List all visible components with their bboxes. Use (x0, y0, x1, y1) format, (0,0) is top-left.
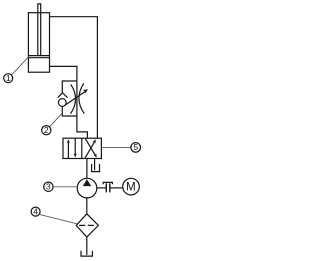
wire pump to filter (86, 198, 88, 214)
filter 4 diamond (76, 214, 98, 237)
pump 3 circle (77, 178, 97, 198)
left position down arrow (74, 138, 76, 155)
pointer line 1 (12, 56, 30, 75)
svg-text:4: 4 (33, 206, 38, 216)
svg-text:3: 3 (46, 182, 51, 192)
cylinder 1 body (28, 13, 49, 72)
directional valve 5 body (63, 138, 101, 158)
shaft pump to coupling (97, 187, 107, 189)
throttle adjust arrow (65, 91, 86, 105)
wire filter to tank (86, 237, 88, 255)
pointer line 3 (53, 186, 77, 188)
valve position divider (81, 138, 83, 158)
pointer line 4 (40, 215, 77, 224)
throttle valve 2 body top edge (62, 81, 77, 93)
motor M circle (123, 178, 140, 195)
tank at valve T (92, 164, 100, 172)
right position cross arrow P-B (85, 141, 95, 158)
label circle 5 (131, 143, 141, 153)
pointer line 2 (50, 113, 63, 126)
wire cylinder top port to valve B (50, 17, 98, 138)
throttle arc right (79, 83, 84, 113)
svg-text:M: M (126, 182, 136, 194)
wire valve T to tank (94, 159, 96, 171)
svg-text:5: 5 (133, 142, 138, 152)
svg-text:2: 2 (44, 125, 49, 135)
throttle arc left (71, 84, 76, 113)
svg-text:1: 1 (6, 73, 11, 83)
label circle 2 (42, 126, 51, 135)
wire valve P to pump (86, 159, 88, 179)
piston (29, 55, 49, 57)
label circle 4 (31, 207, 40, 216)
filter dashes (79, 224, 85, 226)
left position up arrow (67, 141, 69, 158)
piston rod (38, 4, 41, 56)
pointer line 5 (102, 146, 131, 148)
check valve seat (58, 93, 68, 98)
coupling bars (105, 183, 107, 192)
label circle 3 (44, 182, 53, 191)
tank at filter (81, 251, 92, 256)
coupling cap (103, 182, 112, 184)
right position cross arrow A-T (85, 139, 95, 156)
throttle valve 2 body bottom edge (62, 106, 77, 116)
wire cylinder bottom port through throttle to valve A (50, 66, 88, 138)
check valve ball (58, 99, 66, 107)
label circle 1 (4, 74, 13, 83)
shaft coupling to motor (110, 187, 123, 189)
pump triangle (83, 179, 91, 186)
